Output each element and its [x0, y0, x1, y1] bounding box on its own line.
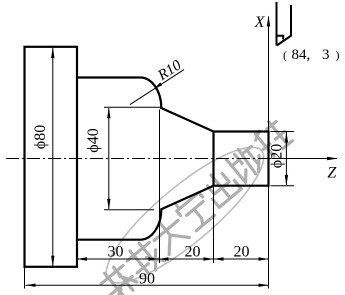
- extension line below part right face: [268, 186, 270, 289]
- svg-text:(84,3): (84,3): [283, 47, 340, 63]
- watermark text 科技大学出版社 (faux strokes): [97, 118, 292, 295]
- dimension row 30/20/20 line: [77, 258, 269, 260]
- X axis: [268, 17, 270, 159]
- svg-text:R10: R10: [154, 57, 184, 84]
- svg-text:20: 20: [234, 244, 250, 261]
- dimension 90 line: [26, 284, 269, 286]
- part outline: step, fillet, cone, small cylinder: [77, 78, 269, 240]
- svg-text:20: 20: [185, 244, 201, 261]
- edge line cone/cylinder junction: [212, 132, 214, 186]
- extension line below flange left face: [24, 267, 26, 289]
- Z axis solid end: [272, 158, 337, 160]
- dimension phi40: [108, 108, 110, 209]
- tool symbol: [277, 2, 292, 46]
- svg-text:30: 30: [108, 244, 124, 261]
- centerline Z axis (dash-dot): [6, 158, 272, 160]
- Z axis arrowhead: [327, 157, 338, 161]
- dimension phi20 extension lines: [271, 132, 295, 186]
- dimension phi80: [52, 48, 54, 266]
- extension line at 20/20 boundary: [213, 187, 215, 263]
- part outline: flange: [25, 47, 78, 267]
- watermark ellipse: [90, 129, 279, 295]
- svg-text:Z: Z: [327, 165, 337, 182]
- svg-text:ϕ40: ϕ40: [85, 128, 102, 152]
- svg-text:ϕ80: ϕ80: [32, 125, 49, 149]
- R10 leader: [130, 70, 184, 105]
- row1 arrows: [77, 257, 87, 260]
- svg-text:ϕ20: ϕ20: [269, 144, 286, 168]
- X axis arrowhead: [267, 16, 270, 27]
- dimension phi40 extension lines: [104, 107, 161, 209]
- svg-text:X: X: [254, 14, 266, 31]
- dimension phi20: [285, 132, 287, 185]
- extension line at 30/20 boundary: [159, 110, 161, 264]
- svg-text:90: 90: [139, 271, 155, 288]
